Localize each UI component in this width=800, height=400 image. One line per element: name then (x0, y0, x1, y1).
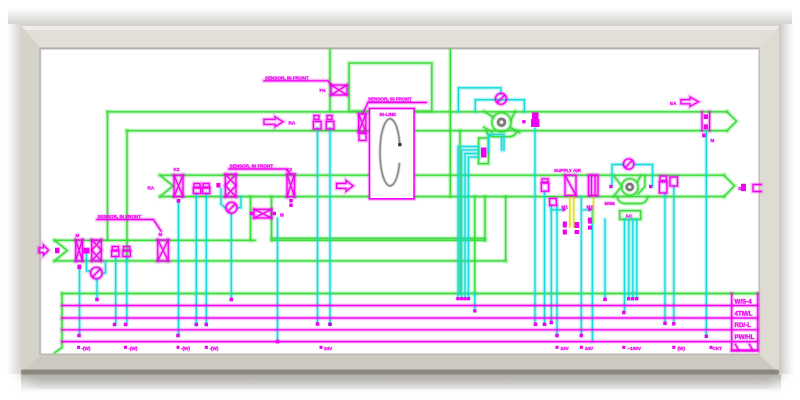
fan blade: rotation arrowhead (398, 143, 402, 147)
node: upper duct end arrow tip (727, 112, 737, 131)
wire: supply duct top line (160, 174, 724, 176)
svg-text:SUPPLY AIR: SUPPLY AIR (554, 168, 582, 173)
svg-text:(W): (W) (678, 346, 686, 351)
svg-text:AC: AC (626, 214, 633, 219)
node: dot below H2 (177, 199, 181, 203)
damper OA (76, 240, 83, 261)
wire: bundle green vertical 2 (474, 197, 476, 294)
wire: discharge instrument drop 2 (673, 187, 675, 324)
node: tag arrowhead 1 (563, 208, 567, 212)
wire: discharge instrument drop 1 (664, 193, 666, 323)
damper FS top-left (331, 85, 347, 95)
instrument T upper duct 1 (314, 116, 319, 120)
actuator M return fan (532, 113, 539, 120)
wire: ddc bus line 1 (62, 304, 758, 307)
instrument supply mid (542, 179, 548, 182)
wire: bundle green vertical 2 (473, 197, 476, 294)
node: dot below OA damper (77, 265, 81, 270)
wire: ddc bus line 2 (62, 317, 758, 320)
fan: return fan scroll circle (492, 113, 511, 132)
damper EA end (702, 112, 710, 131)
wire: H2 damper drop (178, 202, 180, 336)
label leader: sensor label 4 underline (97, 220, 161, 232)
wire: return instrument drop 2 (327, 129, 332, 325)
node: tag arrowhead 2 (589, 208, 593, 212)
damper K3 (287, 174, 295, 197)
instrument discharge 1 (660, 176, 666, 181)
instrument T upper duct 1 (314, 116, 319, 120)
wire: OA instrument drop 2 (125, 257, 128, 325)
wire: outside-air duct top line (55, 239, 486, 241)
fan: supply fan bulge (617, 197, 648, 204)
wire: OA instrument drop 2 (126, 257, 128, 325)
arrow RA upper duct (264, 117, 283, 127)
wire: relay curl 3 (465, 154, 479, 298)
filter S1 (565, 175, 576, 195)
wire: mix damper drop (276, 219, 279, 342)
wire: mixing plenum right vertical 2 (505, 197, 507, 261)
svg-text:M1: M1 (562, 205, 569, 210)
svg-text:EA: EA (670, 101, 677, 106)
wire: OA sensor hook (87, 254, 91, 271)
arrow OA inlet (39, 245, 49, 255)
damper RA mix (158, 240, 169, 261)
wire: supply instrument drop 2 (205, 194, 207, 325)
damper mixing horizontal (254, 209, 272, 218)
wire: supply sensor drop 4 (556, 206, 559, 336)
wire: bundle green vertical 1 (459, 131, 461, 294)
node: supply duct inlet chevron (160, 175, 173, 196)
wire: supply duct bottom line (160, 195, 724, 198)
wire: relay curl 2 (462, 150, 479, 297)
gauge DP supply fan (624, 159, 634, 169)
node: dots beside mixing damper (250, 212, 253, 215)
damper H2 supply inlet (174, 175, 183, 196)
wire: filter drop 2 (591, 210, 594, 342)
wire: AC bundle 3 (635, 219, 638, 298)
gauge DP filter (226, 202, 237, 213)
fan: return fan inlet slopes (484, 111, 493, 132)
fan unit U1: in-line fan box (370, 109, 414, 199)
wire: outside-air duct bottom line (55, 259, 506, 262)
wire: filter S2 yellow drop (592, 196, 595, 223)
svg-text:M: M (280, 213, 284, 218)
svg-text:24V: 24V (585, 346, 594, 351)
node: IO table (732, 294, 758, 351)
wire: bundle tail to bus line 2 (473, 294, 476, 311)
wire: AC bundle 2 (632, 219, 634, 298)
svg-text:24V: 24V (324, 346, 333, 351)
wire: relay curl 1 (458, 147, 479, 298)
actuator M return fan (532, 113, 539, 120)
wire: riser from sheet top to upper duct (328, 50, 331, 111)
wire: riser from sheet top to upper duct (329, 50, 331, 111)
actuator M below inlet damper (359, 134, 366, 141)
wire: return DP loop outer (458, 88, 501, 112)
wire: return DP loop inner (475, 100, 524, 112)
filter S2 (589, 175, 599, 195)
wire: fan aux U loop (489, 135, 505, 153)
node: yellow wire tags 1 (563, 222, 567, 228)
instrument supply duct 2 (203, 184, 209, 188)
node: blob at OA inlet (55, 248, 60, 254)
node: supply duct inlet chevron (160, 175, 173, 196)
wire: mixing riser vertical 1 (249, 197, 252, 241)
fan: return fan bulge (486, 131, 517, 137)
wire: filter gauge right hook (237, 197, 241, 208)
wire: supply sensor drop 3 (550, 206, 553, 323)
fan blade: rotation arrowhead (398, 143, 402, 147)
instrument discharge 2 (670, 177, 678, 186)
filter OA (92, 240, 102, 261)
wire: filter gauge right hook (237, 197, 241, 208)
node: supply duct end arrow tip (724, 175, 735, 196)
filter S1 (565, 175, 576, 195)
wire: OA gauge stub right (103, 262, 106, 274)
inner lip (40, 48, 760, 355)
fan: supply fan inlet pinch (614, 175, 622, 196)
svg-text:SENSOR, IN FRONT: SENSOR, IN FRONT (368, 97, 412, 102)
wire: supply DP loop left (612, 165, 624, 187)
node: relay box K (479, 138, 489, 164)
instrument OA 1 (112, 247, 118, 251)
label leader: sensor label 3 underline (229, 169, 291, 174)
svg-text:K2: K2 (174, 167, 180, 172)
wire: OA sensor hook (87, 254, 91, 271)
wire: filter drop 2 (590, 210, 595, 342)
node: relay box K (479, 138, 489, 164)
svg-text:PW/HL: PW/HL (735, 334, 755, 341)
instrument T upper duct 2 (327, 116, 332, 120)
damper RA mix (158, 240, 169, 261)
instrument supply duct 1 (194, 184, 200, 188)
node: supply duct end arrow tip (724, 175, 735, 196)
node: yellow wire tags 3 (588, 218, 592, 224)
wire: mixing plenum right vertical 1 (484, 197, 486, 241)
arrow EA exhaust (681, 97, 699, 106)
schematic drawing (39, 50, 761, 353)
wire: filter gauge hook (221, 189, 225, 208)
fan blade: in-line fan rotation ellipse (380, 119, 400, 186)
fan: supply fan inlet pinch (614, 175, 622, 196)
wire: supply duct bottom line (160, 196, 724, 198)
wire: left wrap vertical inner (126, 131, 128, 261)
fan: supply fan bulge (617, 197, 648, 204)
wire: relay curl 4 (469, 157, 479, 297)
damper OA (76, 240, 83, 261)
instrument supply duct 2 (203, 184, 209, 188)
wire: return instrument drop 1 (316, 129, 319, 325)
svg-text:24V: 24V (561, 346, 570, 351)
arrow EA exhaust (681, 97, 699, 106)
damper K3 (287, 174, 295, 197)
instrument T upper duct 2 (327, 116, 332, 120)
arrow EA exhaust (681, 97, 699, 106)
wire: mixing riser vertical 1 (248, 197, 253, 241)
fan hub: supply fan ring (627, 184, 633, 190)
damper mixing horizontal (254, 209, 272, 218)
wire: bundle tail to bus line 2 (472, 294, 477, 311)
node: yellow wire tags 3 (588, 218, 592, 224)
node: supply duct inlet chevron (160, 175, 173, 196)
wire: ddc bus line 4 (62, 340, 758, 343)
arrow SA mid supply duct (337, 180, 354, 191)
wire: return DP loop inner (475, 100, 524, 112)
svg-text:K3: K3 (286, 167, 292, 172)
wire: AC bundle 1 (627, 219, 630, 298)
fan hub: return fan ring (498, 119, 505, 126)
wire: riser from sheet top to supply level (448, 50, 453, 197)
wire: mixing plenum right vertical 1 (483, 197, 486, 241)
instrument OA 1 (112, 247, 118, 251)
filter S2 (589, 175, 599, 195)
instrument discharge 1 (660, 176, 666, 181)
wire: supply duct bottom line (160, 194, 724, 199)
filter S1 (565, 175, 576, 195)
svg-text:SENSOR, IN FRONT: SENSOR, IN FRONT (265, 76, 309, 81)
junction dots on bus (77, 120, 712, 349)
node: marker in relay box K (481, 148, 487, 158)
damper inlet of in-line fan (359, 114, 366, 132)
wire: ddc green bus line (62, 292, 758, 295)
wire: OA gauge stub right (103, 262, 106, 274)
wire: return DP loop outer (458, 88, 501, 112)
wire: upper return duct bottom line (127, 130, 727, 132)
fan: return fan outlet slopes (511, 111, 520, 132)
svg-text:-(W): -(W) (210, 346, 219, 351)
node: dots beside mixing damper (250, 212, 253, 215)
node: dot below H2 (177, 199, 181, 203)
node: box below supply duct (550, 199, 557, 206)
fan: supply fan outlet transition (638, 175, 645, 194)
svg-text:RD/-L: RD/-L (735, 322, 752, 329)
actuator M below inlet damper (359, 134, 366, 141)
node: IO table (732, 294, 758, 351)
node: dot below EA damper (702, 134, 705, 138)
fan: return fan inlet slopes (484, 111, 493, 132)
node: upper duct end arrow tip (727, 112, 737, 131)
wire: bundle green vertical 1 (457, 131, 462, 294)
filter F1 supply duct (225, 174, 236, 197)
node: outside-air duct inlet chevron (55, 240, 68, 261)
wire: mixing riser vertical 1 (250, 197, 252, 241)
wire: supply sensor drop 2 (543, 193, 546, 325)
wire: supply duct top line (160, 174, 724, 177)
node: outside-air duct inlet chevron (55, 240, 68, 261)
arrow RA upper duct (264, 117, 283, 127)
svg-text:M2: M2 (587, 205, 594, 210)
wire: riser from sheet top to supply level (449, 50, 452, 197)
node: AC unit box (620, 211, 641, 220)
svg-text:-(W): -(W) (82, 346, 91, 351)
node: AC unit box (620, 211, 641, 220)
svg-text:RA: RA (289, 121, 296, 126)
node: yellow wire tags 3 (588, 218, 592, 224)
label leader: sensor label 1 underline (264, 81, 332, 85)
wire: relay curl 1 (458, 147, 479, 298)
junction dots on bus (77, 120, 712, 349)
node: tag arrowhead 2 (589, 208, 593, 212)
instrument T upper duct 1 (314, 116, 319, 120)
wire: AC drop 2 (623, 219, 626, 312)
node: top plenum box (349, 63, 432, 111)
node: dot below OA damper (77, 265, 81, 270)
wire: mix damper drop (277, 219, 279, 342)
wire: return instrument drop 2 (329, 129, 332, 325)
wire: plenum bottom line (272, 237, 486, 239)
fan: return fan scroll circle (492, 113, 511, 132)
wire: OA gauge stub right (103, 262, 106, 274)
node: top plenum box (349, 63, 432, 111)
frame top band (21, 26, 779, 50)
svg-text:IN-LINE: IN-LINE (380, 112, 397, 117)
wire: discharge instrument drop 2 (671, 187, 676, 324)
node: small square sensor (216, 183, 220, 188)
instrument supply mid (542, 179, 548, 182)
filter F1 supply duct (225, 174, 236, 197)
instrument supply duct 1 (194, 184, 200, 188)
frame bottom band (21, 353, 779, 373)
wire: supply instrument drop 2 (205, 194, 208, 325)
wire: supply sensor drop 4 (556, 206, 558, 336)
arrow OA inlet (39, 245, 49, 255)
label leader: sensor label 1 underline (264, 81, 332, 85)
node: tag arrowhead 1 (563, 208, 567, 212)
wire: supply tag hook 2 (584, 209, 588, 211)
wire: ddc bus line 3 (62, 328, 758, 331)
wire: left wrap vertical outer (105, 112, 110, 240)
svg-text:M: M (711, 138, 715, 143)
fan unit U1: in-line fan box (370, 109, 414, 199)
instrument discharge 2 (670, 177, 678, 186)
fan: supply fan outlet transition (638, 175, 645, 194)
node: dot below H2 (177, 199, 181, 203)
svg-text:CKT: CKT (713, 346, 723, 351)
node: small square sensor (216, 183, 220, 188)
gauge DP filter (226, 202, 237, 213)
wire: mixing plenum right vertical 2 (504, 197, 507, 261)
filter F1 supply duct (225, 174, 236, 197)
fan: return fan scroll circle (492, 113, 511, 132)
fan: supply fan inlet pinch (614, 175, 622, 196)
wire: riser from sheet top to supply level (449, 50, 451, 197)
wire: supply sensor drop 1 (532, 129, 537, 325)
node: right edge SA symbol (741, 184, 746, 191)
instrument supply duct 1 (194, 184, 200, 188)
label leader: sensor label 1 underline (264, 81, 332, 85)
wire: return DP loop outer (458, 88, 501, 112)
instrument OA 2 (124, 247, 130, 251)
label leader: sensor label 2 underline (363, 103, 426, 114)
node: relay box K (479, 138, 489, 164)
wire: supply tag hook 1 (551, 208, 562, 211)
svg-text:RA: RA (148, 186, 155, 191)
wire: supply DP loop right (634, 165, 653, 187)
wire: AC bundle 2 (630, 219, 635, 298)
wire: filter S1 yellow drop 1 (568, 196, 571, 228)
wire: supply DP loop left (612, 165, 624, 187)
wire: discharge instrument drop 2 (672, 187, 675, 324)
wire: upper return duct top line (108, 110, 728, 113)
wire: ddc bus line 1 (62, 305, 758, 307)
wire: OA instrument drop 1 (115, 257, 117, 325)
wire: supply sensor drop 3 (550, 206, 552, 323)
node: yellow wire tags 1 (563, 222, 567, 228)
damper H2 supply inlet (174, 175, 183, 196)
svg-text:7%: 7% (319, 88, 326, 93)
wire: mixing riser vertical 2 (269, 197, 274, 241)
wire: bundle tail to bus line 2 (474, 294, 476, 311)
wire: left wrap vertical inner (124, 131, 129, 261)
wire: filter gauge hook (221, 189, 225, 208)
instrument OA 2 (124, 247, 130, 251)
wire: supply tag hook 1 (551, 207, 562, 212)
filter OA (92, 240, 102, 261)
wire: relay curl 2 (462, 150, 479, 297)
damper H2 supply inlet (174, 175, 183, 196)
node: box below supply duct (550, 199, 557, 206)
instrument OA 1 (112, 247, 118, 251)
wire: fan aux U loop (489, 135, 505, 153)
label leader: sensor label 3 underline (229, 169, 291, 174)
instrument T upper duct 2 (327, 116, 332, 120)
label leader: sensor label 4 underline (97, 220, 161, 232)
wire: filter gauge right hook (237, 197, 241, 208)
wire: filter S1 yellow drop 2 (572, 196, 575, 228)
fan: supply fan scroll circle (622, 179, 639, 196)
damper OA (76, 240, 83, 261)
wire: supply sensor drop 1 (534, 129, 536, 325)
wire: outside-air duct top line (55, 238, 486, 243)
wire: H2 damper drop (176, 202, 181, 336)
wire: mixing plenum right vertical 1 (482, 197, 487, 241)
node: table check marks (736, 345, 753, 351)
svg-text:M: M (159, 232, 163, 237)
node: yellow wire tags 2 (575, 222, 580, 228)
wire: ddc bus line 1 (62, 303, 758, 308)
wire: ddc bus line 3 (62, 327, 758, 332)
actuator M below inlet damper (359, 134, 366, 141)
wire: OA damper drop (77, 268, 82, 336)
node: dots below K3 (289, 199, 292, 202)
wire: filter drop 2 (591, 210, 593, 342)
wire: ddc bus line 3 (62, 329, 758, 331)
wire: return fan bottom stub (500, 138, 503, 150)
fan: supply fan outlet transition (638, 175, 645, 194)
damper FS top-left (331, 85, 347, 95)
instrument OA 2 (124, 247, 130, 251)
wire: OA gauge drop (96, 279, 99, 300)
wire: ddc bus line 4 (62, 341, 758, 343)
wire: left wrap vertical inner (125, 131, 128, 261)
filter S2 (589, 175, 599, 195)
fan: return fan bulge (486, 131, 517, 137)
wire: outside-air duct bottom line (55, 260, 506, 262)
label leader: sensor label 2 underline (363, 103, 426, 114)
svg-text:4TM/L: 4TM/L (735, 311, 753, 318)
wire: relay curl 4 (469, 157, 479, 297)
wire: relay curl 3 (465, 154, 479, 298)
label leader: sensor label 2 underline (363, 103, 426, 114)
gauge DP return fan (496, 93, 507, 104)
wire: ddc green bus line (62, 291, 758, 296)
node: sensor square OA (83, 248, 89, 254)
damper inlet of in-line fan (359, 114, 366, 132)
wire: filter S1 yellow drop 2 (573, 196, 575, 228)
node: blob at OA inlet (55, 248, 60, 254)
arrow RA upper duct (264, 117, 283, 127)
node: sensor square OA (83, 248, 89, 254)
